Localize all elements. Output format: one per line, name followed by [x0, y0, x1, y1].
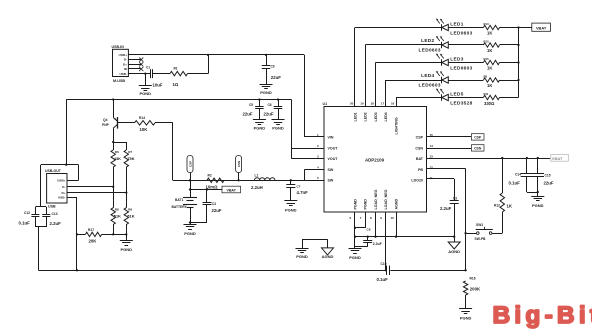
svg-text:43K: 43K — [114, 156, 121, 161]
node junction LED rail — [517, 79, 519, 81]
capacitor C10 0.1uF (series) — [377, 262, 390, 282]
wire U1 pin 7 jog to pin 6 — [355, 212, 366, 228]
node junction VBAT spur — [189, 188, 191, 190]
svg-text:USB-IN: USB-IN — [112, 45, 125, 49]
svg-text:1K: 1K — [487, 65, 492, 70]
node junction C3/AGND — [453, 236, 455, 238]
svg-text:USB-: USB- — [58, 196, 66, 200]
capacitor C15 22uF — [532, 158, 554, 196]
resistor R14 10K — [135, 116, 156, 132]
wire VBUS rail from USB-IN USB+ to VIN drop — [128, 54, 304, 56]
svg-text:22uF: 22uF — [212, 208, 222, 213]
svg-text:PB: PB — [418, 168, 423, 172]
wire U1 pin 6 PGND down — [354, 212, 356, 249]
transistor Q4 PNP — [102, 100, 118, 143]
wire USB-OUT USB+ pin — [67, 180, 79, 182]
svg-text:M-USB: M-USB — [113, 79, 125, 83]
svg-text:CSN: CSN — [237, 161, 241, 167]
svg-text:USB: USB — [48, 204, 56, 208]
net tag CSP (pin 15) — [427, 134, 485, 140]
svg-text:LED0603: LED0603 — [450, 66, 472, 71]
svg-text:LED1: LED1 — [450, 22, 463, 27]
LED LED1 LED0603 — [436, 19, 473, 36]
svg-text:PNP: PNP — [102, 123, 110, 127]
svg-text:PGND: PGND — [260, 90, 272, 95]
ground PGND below C14/C15 — [531, 197, 544, 208]
svg-text:C10: C10 — [381, 262, 387, 266]
wire node to USB-OUT USB+ and C12/C13 — [41, 165, 79, 208]
resistor R13 1K — [448, 22, 518, 35]
svg-text:C12: C12 — [24, 211, 30, 215]
svg-text:C8: C8 — [367, 228, 371, 232]
capacitor C1 10uF (series filter cap) — [146, 65, 163, 87]
capacitor C7 4.7nF snubber — [286, 180, 308, 201]
svg-text:75K: 75K — [127, 156, 134, 161]
wire D- to divider — [67, 186, 113, 188]
svg-text:Q4: Q4 — [103, 118, 108, 122]
ground PGND below C5 — [253, 120, 266, 131]
svg-text:SW-PB: SW-PB — [475, 237, 487, 241]
svg-text:C9: C9 — [271, 65, 275, 69]
svg-text:BATTERY: BATTERY — [172, 205, 188, 209]
wire C12/C13 bottom bar and drop to load-neg wire — [35, 227, 46, 271]
svg-text:BAT: BAT — [416, 157, 424, 161]
power tag VBAT (battery) — [222, 186, 241, 193]
resistor R11 330&#937; — [448, 92, 518, 106]
ground PGND below C6 — [272, 120, 285, 131]
battery BAT1 — [172, 198, 198, 223]
wire LDO20 to C3 — [427, 179, 455, 201]
wire U1 pin 16 to LED5 — [396, 98, 442, 107]
svg-text:2.2uH: 2.2uH — [251, 185, 263, 190]
pin stub USB-IN D- (no connect) — [128, 58, 143, 62]
svg-text:D+: D+ — [123, 62, 127, 66]
node junction LED rail — [517, 26, 519, 28]
svg-text:200K: 200K — [470, 287, 481, 292]
resistor R2 10mOhm current sense — [206, 173, 224, 189]
svg-text:CSN: CSN — [474, 147, 482, 151]
node junction pin8 — [374, 236, 376, 238]
wire USB- down to load-sense line — [67, 197, 77, 270]
svg-text:LED1: LED1 — [353, 112, 357, 121]
svg-text:16: 16 — [391, 102, 395, 106]
node junction pin10 — [395, 236, 397, 238]
net tag CSN — [236, 156, 242, 181]
wire U1 pin 9 LOAD_NEG down to C10 wire — [385, 212, 387, 270]
svg-text:LED4: LED4 — [384, 112, 388, 121]
svg-text:C1: C1 — [146, 65, 150, 69]
svg-text:PGND: PGND — [254, 125, 266, 130]
svg-text:4.7nF: 4.7nF — [297, 190, 309, 195]
svg-text:AGND: AGND — [394, 199, 398, 210]
node junction pin9/C10 wire — [385, 269, 387, 271]
capacitor C2 22uF — [203, 190, 222, 223]
svg-text:PGND: PGND — [184, 231, 196, 236]
inductor L1 2.2uH — [251, 174, 275, 190]
svg-text:14: 14 — [430, 144, 434, 148]
svg-text:LOAD_NEG: LOAD_NEG — [384, 189, 388, 209]
capacitor C13 2.2uF — [42, 207, 61, 227]
svg-text:USB+: USB+ — [57, 179, 66, 183]
wire U1 pin 20 to LED1 — [355, 28, 442, 107]
svg-text:22uF: 22uF — [243, 111, 253, 116]
svg-text:R8: R8 — [115, 208, 119, 212]
wire Q4 base to R14 — [117, 122, 134, 124]
wire C14/C15 bottom join — [527, 192, 538, 194]
node junction C14/BAT — [526, 157, 528, 159]
capacitor C9 22uF on VBUS — [262, 55, 281, 84]
svg-text:R2: R2 — [208, 173, 212, 177]
node junction pin6/pin7 — [354, 227, 356, 229]
node junction R16/PB/bottom run — [464, 269, 466, 271]
resistor R10 1K — [448, 40, 518, 53]
node junction battery/PGND — [189, 221, 191, 223]
svg-text:LED3: LED3 — [450, 57, 463, 62]
wire VBUS drop to VIN pin 1 — [304, 55, 324, 137]
node junction R1/VBUS — [207, 54, 209, 56]
svg-text:18: 18 — [371, 102, 375, 106]
wire U1 pin 19 to LED2 — [365, 45, 442, 107]
svg-text:20: 20 — [350, 102, 354, 106]
node junction D- divider — [112, 186, 114, 188]
node junction USB- drop / bottom run — [76, 269, 78, 271]
node junction C15/BAT — [537, 157, 539, 159]
node junction C7/SW — [290, 179, 292, 181]
svg-text:10K: 10K — [140, 127, 149, 132]
node junction D+ divider — [125, 191, 127, 193]
svg-text:SW: SW — [328, 168, 334, 172]
svg-text:LED3: LED3 — [374, 112, 378, 121]
resistor R15 1K — [448, 57, 518, 70]
svg-text:PGND: PGND — [460, 315, 472, 320]
svg-text:22uF: 22uF — [544, 181, 554, 186]
LED LED2 LED0603 — [419, 36, 449, 53]
svg-text:R10: R10 — [484, 40, 490, 44]
node junction C6/VOUT rail — [277, 98, 279, 100]
svg-text:VBAT: VBAT — [536, 26, 547, 31]
svg-text:22uF: 22uF — [264, 111, 274, 116]
resistor R1 1R — [170, 67, 188, 87]
wire LED common anode vertical — [518, 28, 520, 98]
svg-text:LED2: LED2 — [364, 112, 368, 121]
svg-text:0.1uF: 0.1uF — [509, 180, 521, 185]
svg-text:LED0603: LED0603 — [419, 83, 441, 88]
svg-text:BAT1: BAT1 — [175, 198, 184, 202]
capacitor C3 2.2uF — [440, 196, 459, 236]
resistor R6 43K — [111, 142, 121, 187]
node junction C5/VOUT rail — [258, 98, 260, 100]
node junction Q4 emitter/VOUT rail — [112, 98, 114, 100]
svg-text:51K: 51K — [114, 213, 121, 218]
ground PGND below C9 — [260, 85, 273, 96]
ground PGND below battery — [184, 223, 197, 237]
pin stub USB-IN ID (no connect) — [128, 67, 143, 71]
node junction R12/BAT — [501, 157, 503, 159]
svg-text:C2: C2 — [212, 202, 216, 206]
svg-text:R6: R6 — [115, 150, 119, 154]
svg-text:2.2uF: 2.2uF — [440, 206, 452, 211]
resistor R17 20K — [77, 228, 126, 243]
svg-text:PGND: PGND — [532, 203, 544, 208]
power tag VBAT (BAT pin) — [551, 154, 569, 161]
svg-text:LED4: LED4 — [421, 73, 434, 78]
capacitor C6 22uF — [264, 100, 283, 120]
svg-text:20K: 20K — [89, 238, 98, 243]
resistor R9 1K — [448, 75, 518, 88]
svg-text:ADP2109: ADP2109 — [365, 157, 385, 162]
svg-text:R14: R14 — [139, 116, 145, 120]
svg-text:PGND: PGND — [272, 125, 284, 130]
svg-text:1K: 1K — [487, 83, 492, 88]
svg-text:17: 17 — [381, 102, 385, 106]
power tag VBAT (LED rail) — [519, 23, 551, 31]
svg-text:2.2uF: 2.2uF — [373, 242, 382, 246]
svg-text:1K: 1K — [487, 48, 492, 53]
resistor R9 51K — [124, 193, 135, 235]
ground AGND of PGND-AGND tie — [322, 239, 334, 259]
wire U1 pin 8 LOAD_NEG down — [375, 212, 377, 237]
svg-text:VOUT: VOUT — [328, 146, 339, 150]
svg-text:PGND: PGND — [353, 199, 357, 210]
svg-text:PGND: PGND — [285, 207, 297, 212]
ground PGND of PGND-AGND tie — [296, 239, 309, 259]
svg-text:0.1uF: 0.1uF — [377, 277, 389, 282]
wire SW pins bar — [305, 169, 325, 180]
capacitor C5 22uF — [243, 100, 264, 120]
svg-text:CSP: CSP — [474, 136, 482, 140]
wire C1 to R1 — [153, 73, 170, 75]
node junction USB-/PGND — [144, 72, 146, 74]
node junction LED rail — [517, 61, 519, 63]
ground PGND below divider — [120, 234, 133, 251]
wire R1 up to VBUS rail — [188, 55, 209, 74]
wire BAT rail to VBAT — [427, 158, 551, 160]
svg-text:C3: C3 — [453, 196, 457, 200]
wire U1 pin 10 AGND down — [396, 212, 398, 237]
node junction C2 top — [206, 188, 208, 190]
wire U1 pin 18 to LED3 — [376, 63, 442, 107]
ground PGND below C1 node — [139, 74, 152, 96]
wire VOUT rail down to VOUT pins 2,3 — [292, 100, 325, 159]
ground PGND below pin 6 — [349, 249, 362, 261]
svg-text:330Ω: 330Ω — [484, 101, 495, 106]
svg-text:R16: R16 — [470, 276, 476, 280]
svg-text:USB-OUT: USB-OUT — [45, 169, 62, 173]
svg-text:L1: L1 — [255, 174, 259, 178]
wire R14 to battery rail — [155, 123, 190, 181]
svg-text:D+: D+ — [61, 191, 65, 195]
U1 bottom pin names — [353, 189, 398, 209]
svg-text:R9: R9 — [128, 208, 132, 212]
svg-text:AGND: AGND — [322, 254, 334, 259]
svg-text:SW1: SW1 — [476, 223, 483, 227]
svg-text:LED3528: LED3528 — [450, 101, 472, 106]
node junction LED rail — [517, 44, 519, 46]
wire PB pin to switch and load-neg — [427, 169, 466, 271]
wire LOAD_NEG bottom run — [39, 270, 466, 272]
svg-text:D-: D- — [62, 185, 65, 189]
svg-text:VIN: VIN — [328, 135, 334, 139]
svg-text:LED0603: LED0603 — [450, 31, 472, 36]
U1 pin numbers — [317, 102, 433, 221]
node junction USB-/R17 — [76, 233, 78, 235]
pin stub USB-IN D+ (no connect) — [128, 62, 143, 66]
wire C12/C13 top bar — [35, 206, 46, 208]
svg-text:C6: C6 — [268, 103, 272, 107]
svg-text:2.2uF: 2.2uF — [50, 221, 62, 226]
svg-text:R7: R7 — [128, 150, 132, 154]
wire AGND/PGND tie (pin6 to C3 node) — [355, 236, 454, 238]
wire PGND-AGND tie bridge — [302, 239, 328, 241]
node junction pin6/gnd wire — [354, 236, 356, 238]
op-amp U1 ADP2109 (main IC) — [323, 102, 427, 212]
wire battery bottom bar — [190, 222, 207, 224]
USB-IN connector J1 (M-USB) — [112, 45, 129, 83]
svg-text:CSP: CSP — [188, 161, 192, 167]
svg-text:D-: D- — [124, 58, 127, 62]
svg-text:LED0603: LED0603 — [419, 48, 441, 53]
svg-text:R12: R12 — [494, 204, 500, 208]
svg-text:C14: C14 — [515, 172, 521, 176]
svg-text:USB+: USB+ — [119, 53, 128, 57]
svg-text:C15: C15 — [545, 174, 551, 178]
wire VOUT rail — [66, 99, 291, 101]
wire U1 pin 17 to LED4 — [386, 80, 442, 107]
ground PGND below C7 — [284, 201, 297, 213]
svg-text:Big-Bit: Big-Bit — [493, 302, 592, 329]
LED LED3 LED0603 — [436, 54, 473, 71]
svg-text:R9: R9 — [484, 75, 488, 79]
svg-text:PGND: PGND — [349, 255, 361, 260]
node junction C15/PGND — [537, 191, 539, 193]
svg-text:LIGHTING: LIGHTING — [394, 117, 398, 134]
capacitor C12 0.1uF — [19, 207, 40, 227]
svg-text:CSN: CSN — [415, 146, 423, 150]
wire VBAT spur below R2 — [190, 180, 222, 197]
capacitor C8 2.2uF — [355, 228, 382, 247]
ground PGND below R16 — [459, 309, 472, 321]
svg-text:VOUT: VOUT — [328, 157, 339, 161]
svg-text:PGND: PGND — [296, 254, 308, 259]
ground AGND below C3 — [448, 237, 460, 254]
wire USB-IN USB- to C1 — [128, 73, 150, 75]
wire VOUT rail left drop toward USB-OUT — [66, 100, 68, 165]
node junction CSN — [237, 179, 239, 181]
svg-text:R13: R13 — [484, 22, 490, 26]
resistor R12 1K — [494, 158, 513, 233]
svg-text:AGND: AGND — [448, 249, 460, 254]
wire battery rail (Q4 base node to SW) — [190, 180, 305, 182]
node junction PB/SW1 — [464, 232, 466, 234]
svg-text:R17: R17 — [88, 228, 94, 232]
node junction C9/VBUS — [265, 54, 267, 56]
svg-text:51K: 51K — [127, 213, 134, 218]
svg-text:LDO20: LDO20 — [411, 179, 423, 183]
svg-text:U1: U1 — [323, 102, 328, 106]
USB-OUT connector J2 — [45, 169, 67, 208]
svg-text:R15: R15 — [484, 57, 490, 61]
svg-text:C5: C5 — [249, 103, 253, 107]
resistor R7 75K — [113, 142, 135, 193]
svg-text:R11: R11 — [484, 92, 489, 96]
svg-text:1Ω: 1Ω — [173, 82, 179, 87]
svg-text:10: 10 — [391, 216, 395, 220]
net tag CSN (pin 14) — [427, 145, 485, 151]
svg-text:19: 19 — [360, 102, 364, 106]
svg-text:PGND: PGND — [121, 247, 133, 252]
node junction at left drop — [65, 164, 67, 166]
switch SW1 SW-PB — [466, 223, 503, 241]
svg-text:0.1uF: 0.1uF — [19, 220, 31, 225]
wire D+ to divider — [67, 192, 126, 194]
svg-text:PGND: PGND — [140, 91, 152, 96]
LED LED4 LED0603 — [419, 71, 449, 88]
svg-text:C13: C13 — [52, 212, 58, 216]
node junction CSP/battery — [189, 179, 191, 181]
svg-text:USB-: USB- — [119, 72, 127, 76]
svg-text:10uF: 10uF — [153, 83, 163, 88]
LED LED5 LED3528 — [436, 89, 473, 106]
svg-text:1K: 1K — [487, 30, 492, 35]
node junction R8/R17 — [112, 233, 114, 235]
svg-text:VBAT: VBAT — [552, 156, 563, 161]
resistor R16 200K — [463, 276, 481, 308]
node junction Q4 collector / R6 R7 — [112, 141, 114, 143]
capacitor C14 0.1uF — [509, 158, 534, 192]
svg-text:R1: R1 — [174, 67, 178, 71]
net tag CSP — [187, 156, 193, 181]
node junction C8 top — [367, 236, 369, 238]
svg-text:LOAD_NEG: LOAD_NEG — [374, 189, 378, 209]
svg-text:CSP: CSP — [416, 135, 424, 139]
svg-text:LED5: LED5 — [450, 92, 463, 97]
svg-text:SW: SW — [328, 179, 334, 183]
svg-text:LED2: LED2 — [421, 38, 434, 43]
svg-text:PGND: PGND — [364, 199, 368, 210]
svg-text:22uF: 22uF — [271, 75, 281, 80]
node junction R9/R17/PGND — [125, 233, 127, 235]
svg-text:1K: 1K — [507, 203, 513, 208]
svg-text:VBAT: VBAT — [226, 188, 236, 192]
svg-text:C7: C7 — [297, 184, 301, 188]
resistor R8 51K — [111, 187, 121, 235]
